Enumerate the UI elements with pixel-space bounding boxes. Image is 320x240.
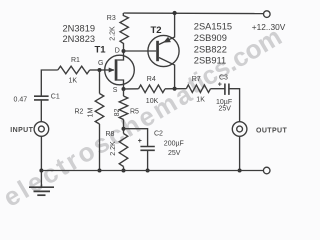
- svg-text:R5: R5: [130, 108, 139, 115]
- svg-text:2SB909: 2SB909: [194, 33, 227, 43]
- svg-text:T1: T1: [95, 45, 107, 56]
- svg-text:OUTPUT: OUTPUT: [256, 128, 287, 135]
- svg-text:C2: C2: [154, 130, 163, 137]
- wire bottom rail: [41, 170, 263, 172]
- svg-text:S: S: [113, 87, 118, 94]
- resistor R5: [123, 89, 125, 96]
- capacitor C2: [124, 129, 148, 147]
- node gnd junction: [39, 169, 43, 173]
- svg-text:2SA1515: 2SA1515: [194, 22, 232, 32]
- resistor R4: [124, 88, 139, 90]
- wire: [40, 136, 42, 170]
- ground: [40, 171, 42, 187]
- svg-text:200µF: 200µF: [164, 141, 184, 148]
- svg-text:+: +: [218, 81, 222, 88]
- svg-text:R3: R3: [107, 15, 116, 22]
- emitter of T2: [159, 13, 175, 45]
- svg-text:R8: R8: [106, 131, 115, 138]
- svg-text:10K: 10K: [146, 98, 159, 105]
- svg-text:C3: C3: [219, 74, 228, 81]
- wire: [229, 89, 240, 122]
- svg-text:T2: T2: [151, 25, 162, 36]
- capacitor C1: [34, 96, 49, 100]
- wire: [41, 70, 58, 96]
- svg-text:25V: 25V: [219, 106, 232, 113]
- svg-text:2N3819: 2N3819: [63, 24, 96, 34]
- node S: [122, 87, 126, 91]
- terminal +V: [264, 11, 271, 18]
- resistor R8: [123, 129, 125, 134]
- svg-text:C1: C1: [51, 94, 60, 101]
- wire: [90, 69, 105, 71]
- svg-text:2N3823: 2N3823: [63, 34, 96, 44]
- node emitter-rail: [173, 11, 177, 15]
- wire: [40, 100, 42, 122]
- svg-text:1K: 1K: [196, 97, 205, 104]
- svg-text:R4: R4: [147, 76, 156, 83]
- node G: [98, 68, 102, 72]
- wire: [239, 136, 241, 170]
- transistor T1 (JFET 2N3819/2N3823): [105, 55, 135, 85]
- svg-text:2SB822: 2SB822: [194, 45, 227, 55]
- resistor R3: [120, 13, 128, 51]
- node R5/R8: [122, 127, 126, 131]
- resistor R2: [99, 70, 101, 94]
- resistor R1: [58, 66, 90, 74]
- node D: [122, 49, 126, 53]
- output jack J2: [232, 122, 247, 137]
- svg-text:R2: R2: [75, 109, 84, 116]
- svg-text:D: D: [115, 47, 120, 54]
- terminal 0V: [263, 167, 270, 174]
- svg-text:0.47: 0.47: [14, 97, 28, 104]
- transistor T2 (PNP 2SA1515): [148, 35, 179, 66]
- svg-text:2SB911: 2SB911: [194, 56, 226, 66]
- resistor R7: [175, 88, 187, 90]
- svg-text:+: +: [138, 138, 142, 145]
- svg-text:2.2K: 2.2K: [110, 26, 117, 41]
- svg-text:1M: 1M: [88, 107, 95, 117]
- svg-text:1K: 1K: [69, 78, 78, 85]
- svg-text:R1: R1: [71, 57, 80, 64]
- capacitor C3: [225, 84, 229, 95]
- svg-text:2.2K: 2.2K: [110, 141, 117, 156]
- svg-text:82: 82: [114, 109, 121, 117]
- svg-text:25V: 25V: [168, 150, 181, 157]
- svg-text:electroschematics.com: electroschematics.com: [0, 21, 289, 210]
- collector of T2: [159, 58, 175, 89]
- svg-text:INPUT: INPUT: [10, 127, 33, 134]
- svg-text:R7: R7: [192, 76, 201, 83]
- svg-text:G: G: [98, 60, 103, 67]
- input jack J1: [34, 122, 49, 137]
- svg-text:+12..30V: +12..30V: [252, 22, 286, 32]
- wire: [124, 50, 157, 52]
- node collector-R4: [173, 87, 177, 91]
- wire top rail: [124, 12, 264, 15]
